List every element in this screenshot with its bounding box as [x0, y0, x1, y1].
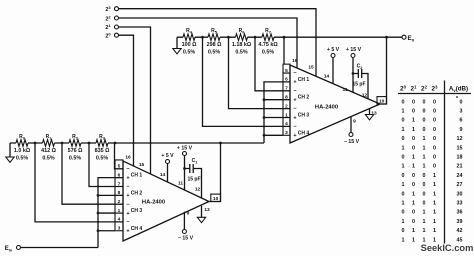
wire tap3 to U2 pin 7 — [255, 37, 283, 91]
U2 pin 7 box — [283, 82, 290, 91]
svg-text:576 Ω: 576 Ω — [68, 148, 83, 154]
svg-text:1: 1 — [402, 127, 405, 133]
wire crossing — [149, 142, 151, 144]
svg-text:1: 1 — [433, 182, 436, 188]
svg-text:+: + — [126, 229, 129, 235]
node top tap1 — [201, 36, 204, 39]
resistor R2 — [69, 140, 81, 147]
svg-text:0: 0 — [433, 99, 436, 105]
wire crossing — [97, 203, 99, 205]
svg-text:+: + — [126, 193, 129, 199]
U2 pin 13 ground — [369, 109, 371, 115]
svg-text:−: − — [126, 166, 129, 172]
svg-text:6: 6 — [460, 118, 463, 124]
svg-text:Ein: Ein — [5, 246, 13, 253]
svg-text:1: 1 — [423, 210, 426, 216]
svg-text:0: 0 — [433, 145, 436, 151]
svg-text:1: 1 — [412, 237, 415, 243]
wire bottom tap2 to U1 pin 2 — [62, 143, 115, 204]
wire crossing — [132, 142, 134, 144]
wire U2 plus-input bus — [264, 82, 283, 143]
svg-text:30: 30 — [457, 191, 463, 197]
svg-text:Av(dB): Av(dB) — [449, 86, 468, 94]
svg-text:+: + — [293, 115, 296, 121]
resistor R0 — [16, 140, 28, 147]
svg-text:10: 10 — [379, 98, 385, 104]
svg-text:4.75 kΩ: 4.75 kΩ — [258, 42, 278, 48]
svg-text:3: 3 — [285, 130, 288, 136]
svg-text:3: 3 — [118, 226, 121, 232]
svg-text:1: 1 — [412, 191, 415, 197]
svg-text:100 Ω: 100 Ω — [182, 42, 197, 48]
node U1 output junction — [219, 142, 222, 145]
svg-text:0.5%: 0.5% — [262, 50, 274, 56]
svg-text:+: + — [126, 175, 129, 181]
U2 pin 5 box — [283, 64, 290, 73]
svg-text:1: 1 — [423, 228, 426, 234]
wire crossing — [263, 125, 265, 127]
svg-text:0: 0 — [412, 219, 415, 225]
svg-text:−: − — [293, 88, 296, 94]
U1 pin 1 box — [115, 204, 123, 213]
svg-text:39: 39 — [457, 219, 463, 225]
svg-text:1: 1 — [412, 127, 415, 133]
svg-text:16: 16 — [125, 155, 131, 161]
svg-text:0: 0 — [402, 99, 405, 105]
svg-text:0: 0 — [423, 99, 426, 105]
wire bottom tap1 to U1 pin 4 — [35, 143, 115, 222]
svg-text:27: 27 — [457, 182, 463, 188]
svg-text:+: + — [293, 80, 296, 86]
svg-text:0: 0 — [423, 109, 426, 115]
svg-text:1: 1 — [402, 237, 405, 243]
svg-text:0: 0 — [423, 191, 426, 197]
svg-text:0: 0 — [433, 109, 436, 115]
svg-text:0.5%: 0.5% — [42, 155, 54, 161]
svg-text:0: 0 — [412, 136, 415, 142]
U1 pin 10 output box — [209, 143, 221, 202]
svg-text:15: 15 — [139, 162, 145, 168]
svg-text:24: 24 — [457, 173, 463, 179]
svg-text:13: 13 — [204, 207, 210, 213]
svg-text:+ 15 V: + 15 V — [177, 146, 193, 152]
svg-text:0.5%: 0.5% — [183, 50, 195, 56]
svg-text:15 pF: 15 pF — [187, 177, 200, 183]
wire U1 plus-input bus — [98, 178, 115, 248]
svg-text:− 15 V: − 15 V — [178, 236, 194, 242]
svg-text:0: 0 — [423, 201, 426, 207]
U2 pin 3 box — [283, 126, 290, 135]
svg-text:1: 1 — [412, 118, 415, 124]
U1 pin 5 box — [115, 160, 123, 169]
op-amp U1 HA-2400 body — [123, 161, 209, 241]
U1 pin 2 box — [115, 195, 123, 204]
svg-text:+: + — [126, 211, 129, 217]
svg-text:0: 0 — [433, 155, 436, 161]
svg-text:−: − — [293, 71, 296, 77]
node U2 pin 3 junction — [263, 134, 266, 137]
svg-text:12: 12 — [362, 93, 368, 99]
wire tap1 to U2 pin 4 — [203, 37, 284, 126]
node U1 pin 3 junction — [97, 229, 100, 232]
svg-text:1: 1 — [433, 191, 436, 197]
svg-text:11: 11 — [342, 87, 347, 93]
resistor R4 — [183, 34, 195, 41]
U2 pin 1 box — [283, 109, 290, 118]
resistor R7 — [262, 34, 274, 41]
U2 pin 4 box — [283, 118, 290, 127]
node top tap2 — [227, 36, 230, 39]
node bottom tap1 — [34, 142, 37, 145]
svg-text:CH 1: CH 1 — [298, 77, 310, 83]
ground (top ladder) — [176, 37, 178, 48]
svg-text:1: 1 — [402, 182, 405, 188]
svg-text:0: 0 — [433, 127, 436, 133]
svg-text:1: 1 — [433, 173, 436, 179]
svg-text:+: + — [293, 133, 296, 139]
svg-text:1: 1 — [402, 164, 405, 170]
output terminal Eo — [402, 35, 406, 39]
svg-text:1: 1 — [402, 145, 405, 151]
svg-text:0.5%: 0.5% — [208, 50, 220, 56]
op-amp U2 HA-2400 body — [290, 65, 380, 143]
svg-text:1.0 kΩ: 1.0 kΩ — [14, 148, 31, 154]
wire crossing — [97, 221, 99, 223]
node top tap3 — [254, 36, 257, 39]
svg-text:−: − — [126, 184, 129, 190]
svg-text:0: 0 — [412, 173, 415, 179]
wire tap2 to U2 pin 2 — [229, 37, 284, 108]
table header rule — [398, 93, 471, 95]
svg-text:0.5%: 0.5% — [69, 155, 81, 161]
resistor R5 — [208, 34, 220, 41]
svg-text:0: 0 — [402, 191, 405, 197]
svg-text:0: 0 — [460, 99, 463, 105]
svg-text:18: 18 — [457, 155, 463, 161]
svg-text:33: 33 — [457, 201, 463, 207]
svg-text:−: − — [126, 220, 129, 226]
svg-text:1: 1 — [423, 164, 426, 170]
svg-text:11: 11 — [178, 181, 183, 187]
svg-text:HA-2400: HA-2400 — [142, 200, 165, 206]
svg-text:0: 0 — [423, 127, 426, 133]
node U2 pin 8 junction — [263, 98, 266, 101]
wire bottom ladder — [10, 142, 264, 144]
svg-text:12: 12 — [195, 187, 201, 193]
table vertical rule — [444, 81, 446, 244]
U1 pin 6 box — [115, 169, 123, 178]
svg-text:CH 3: CH 3 — [298, 113, 310, 119]
resistor R3 — [96, 140, 108, 147]
U1 pin 4 box — [115, 213, 123, 222]
wire ladder end to U2 pin 5 — [283, 37, 285, 64]
svg-text:+ 5 V: + 5 V — [161, 153, 174, 159]
svg-text:1: 1 — [423, 136, 426, 142]
svg-text:15 pF: 15 pF — [352, 82, 365, 88]
svg-text:0.5%: 0.5% — [96, 155, 108, 161]
svg-text:+ 15 V: + 15 V — [346, 47, 362, 53]
node U1 pin 1 junction — [97, 212, 100, 215]
wire 2^2 to U2 pin 16 — [119, 18, 297, 68]
wire ladder to U1 pin 5 — [114, 143, 117, 169]
resistor R1 — [43, 140, 55, 147]
svg-text:15: 15 — [457, 145, 463, 151]
node U1 pin 8 junction — [97, 194, 100, 197]
svg-text:CH 3: CH 3 — [131, 208, 143, 214]
svg-text:0: 0 — [412, 99, 415, 105]
capacitor C2 15pF — [352, 72, 355, 75]
svg-text:HA-2400: HA-2400 — [315, 105, 338, 111]
U1 pin 7 box — [115, 178, 123, 187]
svg-text:0: 0 — [402, 228, 405, 234]
svg-text:CH 4: CH 4 — [131, 226, 143, 232]
svg-text:+: + — [293, 98, 296, 104]
U2 pin 8 box — [283, 91, 290, 100]
node U2 pin 1 junction — [263, 116, 266, 119]
node bottom tap2 — [61, 142, 64, 145]
svg-text:0: 0 — [402, 118, 405, 124]
svg-text:3: 3 — [460, 109, 463, 115]
svg-text:1: 1 — [402, 201, 405, 207]
svg-text:CH 2: CH 2 — [131, 190, 143, 196]
svg-text:298 Ω: 298 Ω — [207, 42, 222, 48]
resistor R6 — [236, 34, 248, 41]
svg-text:0: 0 — [412, 182, 415, 188]
wire crossing — [263, 108, 265, 110]
node Eo junction — [385, 36, 388, 39]
svg-text:0: 0 — [423, 173, 426, 179]
svg-text:0: 0 — [402, 155, 405, 161]
wire 2^0 to U1 pin 16 — [119, 35, 134, 166]
wire crossing — [296, 36, 298, 38]
U2 pin 10 output box — [380, 37, 387, 104]
svg-text:1: 1 — [433, 201, 436, 207]
svg-text:0: 0 — [402, 173, 405, 179]
wire top ladder — [177, 36, 402, 38]
svg-text:0: 0 — [412, 210, 415, 216]
svg-text:SeekIC.com: SeekIC.com — [421, 243, 474, 253]
svg-text:15: 15 — [308, 65, 314, 71]
svg-text:0: 0 — [433, 118, 436, 124]
svg-text:0: 0 — [402, 210, 405, 216]
svg-text:16: 16 — [292, 58, 298, 64]
svg-text:1: 1 — [412, 164, 415, 170]
ground (bottom ladder) — [9, 143, 11, 157]
svg-text:−: − — [126, 202, 129, 208]
node top ladder output end — [283, 36, 286, 39]
svg-text:12: 12 — [457, 136, 463, 142]
svg-text:1: 1 — [423, 219, 426, 225]
svg-text:− 15 V: − 15 V — [344, 139, 360, 145]
svg-text:CH 2: CH 2 — [298, 95, 310, 101]
svg-text:CH 4: CH 4 — [298, 130, 310, 136]
svg-text:21: 21 — [457, 164, 463, 170]
svg-text:1: 1 — [402, 219, 405, 225]
svg-text:0: 0 — [423, 118, 426, 124]
svg-text:9: 9 — [187, 211, 190, 217]
U2 pin 2 box — [283, 100, 290, 109]
svg-text:1: 1 — [412, 228, 415, 234]
node bottom tap3 — [88, 142, 91, 145]
svg-text:−: − — [293, 124, 296, 130]
svg-text:1: 1 — [412, 201, 415, 207]
wire crossing — [315, 36, 317, 38]
svg-text:0: 0 — [433, 164, 436, 170]
svg-text:−: − — [293, 106, 296, 112]
svg-text:14: 14 — [324, 74, 330, 80]
svg-text:10: 10 — [213, 196, 219, 202]
svg-text:+ 5 V: + 5 V — [327, 47, 340, 53]
U2 pin 6 box — [283, 73, 290, 82]
svg-text:1: 1 — [433, 228, 436, 234]
U1 pin 3 box — [115, 222, 123, 231]
svg-text:9: 9 — [353, 119, 356, 125]
U1 pin 9 supply -15V — [183, 212, 185, 230]
svg-text:0: 0 — [433, 136, 436, 142]
svg-text:42: 42 — [457, 228, 463, 234]
svg-text:0: 0 — [423, 182, 426, 188]
svg-text:412 Ω: 412 Ω — [41, 148, 56, 154]
svg-text:9: 9 — [460, 127, 463, 133]
svg-text:0.5%: 0.5% — [16, 155, 28, 161]
svg-text:1: 1 — [433, 210, 436, 216]
U1 pin 13 ground — [201, 206, 203, 217]
svg-text:1: 1 — [402, 109, 405, 115]
U2 pin 9 supply -15V — [350, 117, 352, 133]
svg-text:1: 1 — [423, 145, 426, 151]
svg-text:1: 1 — [412, 155, 415, 161]
capacitor C1 15pF — [183, 167, 186, 170]
wire 2^1 to U1 pin 15 — [119, 27, 151, 174]
svg-text:36: 36 — [457, 210, 463, 216]
svg-text:1.18 kΩ: 1.18 kΩ — [232, 42, 252, 48]
node bottom ladder pin5 tap — [114, 142, 117, 145]
U1 pin 8 box — [115, 187, 123, 196]
svg-text:835 Ω: 835 Ω — [95, 148, 110, 154]
svg-text:0: 0 — [412, 109, 415, 115]
wire crossing — [97, 185, 99, 187]
svg-text:0: 0 — [412, 145, 415, 151]
wire 2^3 to U2 pin 15 — [119, 9, 316, 77]
wire bottom tap3 to U1 pin 7 — [89, 143, 115, 187]
svg-text:13: 13 — [371, 111, 377, 117]
svg-text:0.5%: 0.5% — [235, 50, 247, 56]
svg-text:1: 1 — [433, 219, 436, 225]
svg-text:1: 1 — [423, 155, 426, 161]
wire crossing — [263, 90, 265, 92]
svg-text:CH 1: CH 1 — [131, 173, 143, 179]
svg-text:0: 0 — [402, 136, 405, 142]
svg-text:14: 14 — [160, 172, 166, 178]
